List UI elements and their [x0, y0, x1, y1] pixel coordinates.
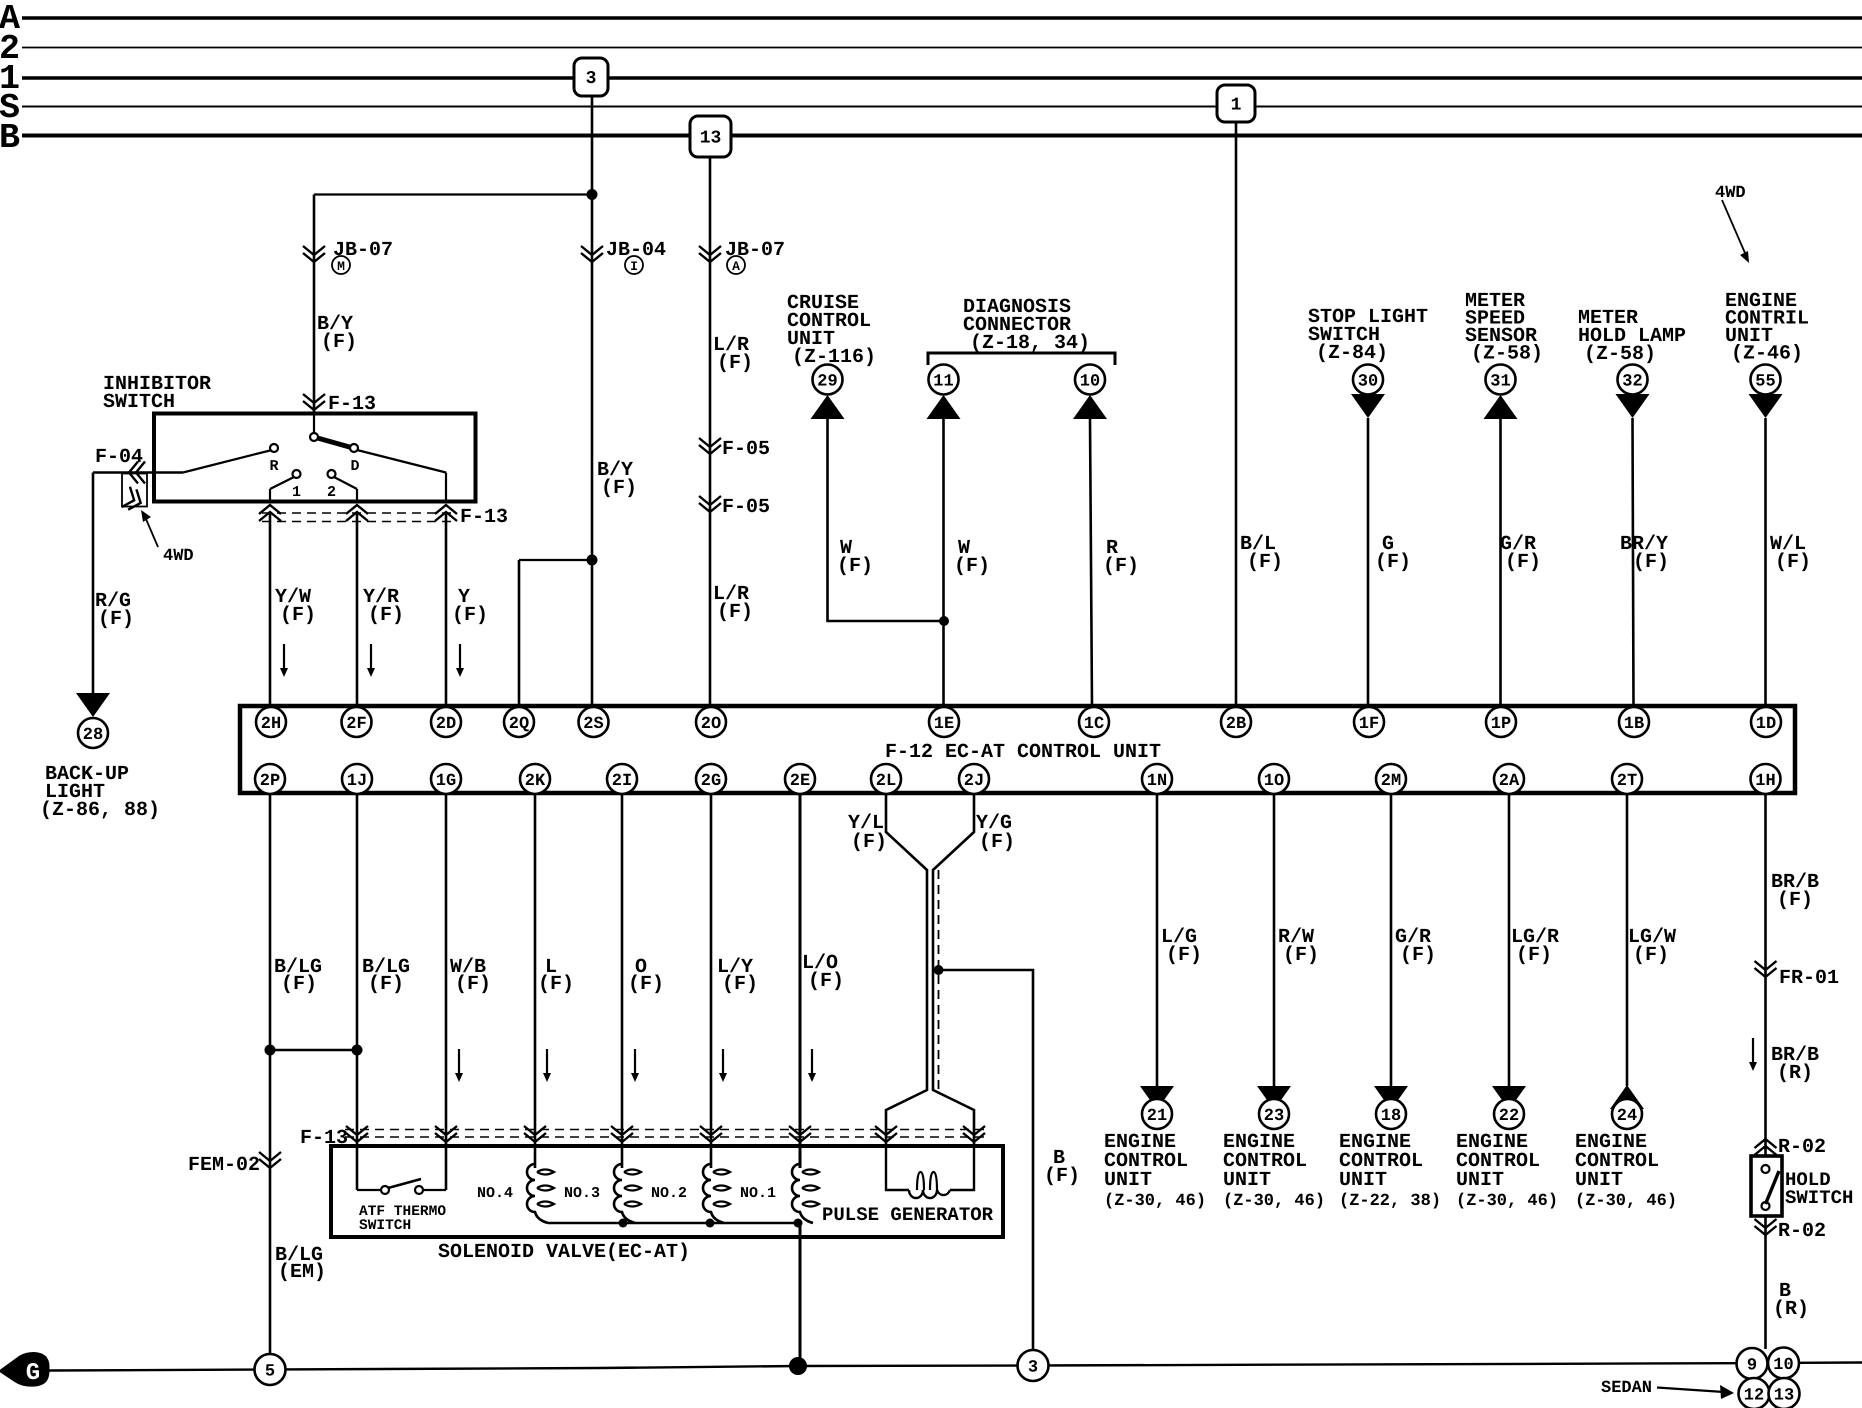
flow arrow x=460	[459, 644, 461, 668]
bus line A	[22, 16, 1862, 20]
svg-text:(F): (F)	[628, 973, 664, 996]
svg-text:(F): (F)	[1103, 555, 1139, 578]
svg-text:SWITCH: SWITCH	[359, 1218, 411, 1234]
circle 10	[1768, 1348, 1799, 1379]
svg-text:(F): (F)	[368, 604, 404, 627]
svg-text:UNIT: UNIT	[1456, 1169, 1504, 1192]
wire 2J shielded pair right	[933, 793, 974, 1146]
wire contact 1 to x=270 drop	[270, 477, 294, 489]
svg-text:1C: 1C	[1084, 715, 1104, 734]
circle 12	[1739, 1378, 1770, 1408]
wire circle 30 to pin 1F	[1367, 418, 1370, 706]
contact 1	[293, 470, 301, 478]
svg-text:4WD: 4WD	[163, 547, 194, 566]
svg-text:5: 5	[265, 1363, 275, 1382]
wire 18 from EC-AT pin	[1390, 793, 1393, 1086]
svg-text:FR-01: FR-01	[1779, 967, 1839, 990]
wire from cruise arrow down and right to junction	[828, 419, 945, 621]
circle 32 meter hold lamp	[1618, 365, 1648, 395]
svg-text:2D: 2D	[436, 715, 456, 734]
connector F-13 chevron x=446	[435, 505, 457, 521]
svg-text:(EM): (EM)	[278, 1261, 326, 1284]
svg-text:(Z-30, 46): (Z-30, 46)	[1104, 1192, 1206, 1211]
circle 22 engine control unit	[1494, 1099, 1524, 1129]
svg-text:1: 1	[1231, 96, 1242, 116]
circle 21 engine control unit	[1142, 1099, 1172, 1129]
svg-text:(F): (F)	[1633, 551, 1669, 574]
connector JB-07 (A) chevron	[699, 246, 721, 262]
wire pivot stub	[313, 414, 315, 435]
SEDAN pointer arrow	[1657, 1388, 1724, 1393]
bus line 1	[22, 76, 1862, 80]
circle 11 diagnosis	[929, 365, 959, 395]
connector FR-01 chevron	[1755, 961, 1777, 977]
svg-text:2G: 2G	[701, 772, 721, 791]
circle 9	[1737, 1348, 1768, 1379]
arrow from circle 55	[1749, 394, 1783, 418]
svg-text:1F: 1F	[1359, 715, 1379, 734]
svg-text:FEM-02: FEM-02	[188, 1154, 260, 1177]
connector F-13 chevron x=535	[524, 1126, 546, 1142]
svg-text:2: 2	[327, 484, 336, 501]
junction at (798,1223)	[794, 1219, 803, 1228]
inhibitor switch box	[154, 414, 476, 502]
svg-text:(F): (F)	[1400, 944, 1436, 967]
svg-text:28: 28	[83, 726, 103, 745]
4WD pointer arrow (left)	[146, 519, 158, 547]
pin 2O	[696, 707, 726, 737]
connector FEM-02 chevron	[259, 1152, 281, 1168]
wire horizontal y=194 to x=314	[314, 193, 592, 195]
svg-text:F-05: F-05	[722, 496, 770, 519]
svg-text:1: 1	[292, 484, 301, 501]
solenoid valve box	[331, 1146, 1003, 1237]
arrow to back-up light	[76, 693, 110, 717]
svg-text:R-02: R-02	[1778, 1136, 1826, 1159]
hold switch contact top	[1762, 1165, 1770, 1173]
flow arrow x=547	[546, 1049, 548, 1073]
svg-text:NO.4: NO.4	[477, 1185, 513, 1202]
connector F-13 chevron x=886	[875, 1126, 897, 1142]
pin 2K	[520, 764, 550, 794]
junction at (270,1050)	[265, 1045, 276, 1056]
flow arrow x=1753	[1752, 1038, 1754, 1062]
ATF thermo switch contact left	[381, 1186, 389, 1194]
big junction on ground bus	[789, 1357, 807, 1375]
arrow from circle 32	[1616, 394, 1650, 418]
wire Y/W x=270 to pin 2H	[269, 514, 272, 706]
svg-text:2Q: 2Q	[509, 715, 529, 734]
pin 1B	[1619, 707, 1649, 737]
connector F-13 chevron x=711	[700, 1126, 722, 1142]
svg-text:I: I	[630, 259, 638, 274]
pin 1F	[1354, 707, 1384, 737]
junction at (938.5,970)	[934, 965, 944, 975]
contact D	[350, 444, 358, 452]
wire 2P down to circle 5	[269, 793, 272, 1355]
svg-text:(Z-30, 46): (Z-30, 46)	[1575, 1192, 1677, 1211]
svg-text:1P: 1P	[1491, 715, 1511, 734]
flow arrow x=284	[283, 644, 285, 668]
svg-text:1N: 1N	[1147, 772, 1167, 791]
svg-text:(F): (F)	[98, 608, 134, 631]
svg-text:(F): (F)	[1166, 944, 1202, 967]
wire 2G down to solenoid NO.2	[710, 793, 713, 1168]
svg-text:(F): (F)	[808, 970, 844, 993]
svg-text:10: 10	[1773, 1356, 1793, 1375]
svg-text:F-13: F-13	[460, 506, 508, 529]
svg-text:2O: 2O	[701, 715, 721, 734]
wire 2I down to solenoid NO.3	[621, 793, 624, 1168]
svg-text:12: 12	[1744, 1387, 1764, 1406]
svg-text:(Z-30, 46): (Z-30, 46)	[1456, 1192, 1558, 1211]
svg-text:30: 30	[1358, 373, 1378, 392]
svg-text:32: 32	[1622, 373, 1642, 392]
wire 1G down to ATF thermo switch	[445, 793, 448, 1190]
svg-text:2K: 2K	[525, 772, 546, 791]
svg-text:B: B	[0, 118, 20, 158]
svg-text:1E: 1E	[934, 715, 954, 734]
wire R exit to F-04 corner	[93, 471, 183, 474]
4WD variant connector box	[122, 474, 147, 507]
svg-text:(F): (F)	[1633, 944, 1669, 967]
connector F-13 chevron x=800	[789, 1126, 811, 1142]
connector F-13 chevron above inhibitor switch	[303, 394, 325, 410]
connector JB-04 (I) chevron	[581, 246, 603, 262]
svg-text:1D: 1D	[1756, 715, 1776, 734]
svg-text:(Z-46): (Z-46)	[1731, 343, 1803, 366]
ATF thermo switch contact right	[415, 1186, 423, 1194]
connector F-13 chevron x=622	[611, 1126, 633, 1142]
pin 2H	[256, 707, 286, 737]
solenoid coil NO.3	[614, 1164, 635, 1223]
junction at (623,1223)	[619, 1219, 628, 1228]
flow arrow x=723	[722, 1049, 724, 1073]
circle 13	[1769, 1378, 1800, 1408]
svg-text:(F): (F)	[837, 555, 873, 578]
svg-text:2B: 2B	[1226, 715, 1246, 734]
pin 2P	[255, 764, 285, 794]
wire Y/R x=357 to pin 2F	[356, 514, 359, 706]
arrow to circle 22	[1492, 1086, 1526, 1110]
svg-text:(F): (F)	[601, 477, 637, 500]
hold switch contact bottom	[1762, 1202, 1770, 1210]
circle 18 engine control unit	[1376, 1099, 1406, 1129]
hold switch blade	[1766, 1171, 1780, 1204]
shield drain wire to ground	[939, 970, 1034, 1351]
junction at (944,621)	[939, 616, 949, 626]
svg-text:29: 29	[817, 373, 837, 392]
pulse generator symbol	[886, 1146, 909, 1190]
bus line 2	[22, 47, 1862, 49]
svg-text:R-02: R-02	[1778, 1220, 1826, 1243]
pin 1J	[342, 764, 372, 794]
wire solenoid return to ground bus	[799, 1223, 802, 1358]
wire circle 55 to pin 1D	[1764, 418, 1767, 706]
svg-text:R: R	[269, 458, 278, 475]
arrow into circle 31	[1484, 395, 1518, 419]
ground symbol G	[0, 1353, 49, 1386]
svg-text:(F): (F)	[717, 601, 753, 624]
wire contact 2 to x=357 drop	[334, 477, 357, 489]
svg-text:(F): (F)	[1044, 1165, 1080, 1188]
svg-text:23: 23	[1264, 1107, 1284, 1126]
svg-text:(F): (F)	[281, 973, 317, 996]
wire 21 from EC-AT pin	[1156, 793, 1159, 1086]
connector F-13 chevron x=357	[346, 505, 368, 521]
pin 2S	[579, 707, 609, 737]
svg-text:M: M	[337, 259, 345, 274]
svg-text:22: 22	[1499, 1107, 1519, 1126]
svg-text:1J: 1J	[347, 772, 367, 791]
connector R-02 chevron lower	[1755, 1219, 1777, 1235]
arrow to circle 18	[1374, 1086, 1408, 1110]
ATF thermo switch left lead	[357, 1189, 381, 1191]
ATF thermo switch blade	[388, 1179, 421, 1188]
svg-text:4WD: 4WD	[1715, 184, 1746, 203]
svg-text:(F): (F)	[321, 331, 357, 354]
svg-text:2T: 2T	[1617, 772, 1637, 791]
svg-text:SWITCH: SWITCH	[1785, 1187, 1853, 1209]
pin 1C	[1079, 707, 1109, 737]
svg-text:1B: 1B	[1624, 715, 1644, 734]
svg-text:F-04: F-04	[95, 446, 143, 469]
pin 2L	[871, 764, 901, 794]
svg-text:UNIT: UNIT	[1339, 1169, 1387, 1192]
svg-text:(F): (F)	[452, 604, 488, 627]
arrow into circle 11	[927, 395, 961, 419]
shield drain dashed wire	[938, 870, 940, 1090]
svg-text:2J: 2J	[964, 772, 984, 791]
junction at (592,194)	[587, 189, 598, 200]
pin 1H	[1751, 764, 1781, 794]
circle 24 engine control unit	[1612, 1099, 1642, 1129]
wire from box 3 down to pin 2S	[591, 96, 594, 706]
ground bus line	[49, 1363, 1737, 1370]
arrow from circle 24	[1610, 1085, 1644, 1109]
svg-text:11: 11	[933, 373, 953, 392]
svg-text:2F: 2F	[346, 715, 366, 734]
connector F-13 chevron x=357	[346, 1126, 368, 1142]
svg-text:(Z-22, 38): (Z-22, 38)	[1339, 1192, 1441, 1211]
svg-text:PULSE GENERATOR: PULSE GENERATOR	[822, 1204, 994, 1226]
svg-text:UNIT: UNIT	[1223, 1169, 1271, 1192]
svg-text:2P: 2P	[260, 772, 280, 791]
wire from box 1 down to pin 2B	[1235, 122, 1238, 706]
circle 30 stop light switch	[1353, 365, 1383, 395]
svg-text:(Z-30, 46): (Z-30, 46)	[1223, 1192, 1325, 1211]
flow arrow x=812	[811, 1049, 813, 1073]
svg-text:2S: 2S	[583, 715, 603, 734]
pin 2M	[1376, 764, 1406, 794]
pin 2D	[431, 707, 461, 737]
connector box 3 on bus 1	[574, 58, 608, 96]
svg-text:2I: 2I	[612, 772, 632, 791]
svg-text:(F): (F)	[455, 973, 491, 996]
svg-text:(F): (F)	[1283, 944, 1319, 967]
wire from box 13 down to pin 2O	[709, 157, 712, 706]
arrow from circle 30	[1351, 394, 1385, 418]
wire Y x=446 to pin 2D	[445, 514, 448, 706]
connector JB-07 (M) chevron	[303, 246, 325, 262]
pin 1P	[1486, 707, 1516, 737]
wire 23 from EC-AT pin	[1273, 793, 1276, 1086]
solenoid common return wire	[548, 1222, 800, 1224]
svg-text:(Z-58): (Z-58)	[1584, 343, 1656, 366]
4WD variant connector chevrons	[122, 487, 145, 513]
svg-text:UNIT: UNIT	[1104, 1169, 1152, 1192]
circle 55 engine control unit	[1751, 365, 1781, 395]
svg-text:A: A	[732, 259, 740, 274]
wire 2K down to solenoid NO.4	[534, 793, 537, 1168]
pin 1G	[431, 764, 461, 794]
arrow to circle 23	[1257, 1086, 1291, 1110]
arrow into circle 10	[1073, 395, 1107, 419]
solenoid coil NO.4	[527, 1164, 548, 1223]
svg-text:2H: 2H	[261, 715, 281, 734]
connector F-13 chevron x=270	[259, 505, 281, 521]
svg-text:3: 3	[1028, 1359, 1038, 1378]
svg-text:SEDAN: SEDAN	[1601, 1379, 1652, 1398]
connector F-13 chevron x=446	[435, 1126, 457, 1142]
bus line S	[22, 106, 1862, 108]
pin 2A	[1494, 764, 1524, 794]
svg-text:(F): (F)	[280, 604, 316, 627]
svg-text:2E: 2E	[790, 772, 810, 791]
svg-text:31: 31	[1490, 373, 1510, 392]
wire horizontal y=560 to 2Q	[519, 559, 592, 561]
svg-text:(Z-84): (Z-84)	[1316, 342, 1388, 365]
wire 24 from EC-AT pin	[1626, 793, 1629, 1086]
svg-text:NO.1: NO.1	[740, 1185, 776, 1202]
pin 1O	[1259, 764, 1289, 794]
svg-text:UNIT: UNIT	[1575, 1169, 1623, 1192]
circle 3 on ground bus	[1018, 1350, 1049, 1381]
svg-text:NO.2: NO.2	[651, 1185, 687, 1202]
arrow to circle 21	[1140, 1086, 1174, 1110]
flow arrow x=371	[370, 644, 372, 668]
junction at (357,1050)	[352, 1045, 363, 1056]
wire 2E down through solenoid NO.1 to ground bus	[799, 793, 802, 1168]
wire circle 32 to pin 1B	[1633, 418, 1634, 706]
pin 1E	[929, 707, 959, 737]
pin 2B	[1221, 707, 1251, 737]
svg-text:(F): (F)	[1777, 889, 1813, 912]
wire 22 from EC-AT pin	[1508, 793, 1511, 1086]
svg-text:24: 24	[1617, 1107, 1637, 1126]
contact R	[270, 444, 278, 452]
svg-text:NO.3: NO.3	[564, 1185, 600, 1202]
connector F-13 chevron x=974	[963, 1126, 985, 1142]
pin 2F	[342, 707, 372, 737]
arrow into circle 29	[811, 395, 845, 419]
junction at (592,560)	[587, 555, 598, 566]
svg-text:13: 13	[1774, 1387, 1794, 1406]
F-13 dashed connector lines	[262, 512, 455, 514]
svg-text:(R): (R)	[1777, 1062, 1813, 1085]
junction at (710,1223)	[706, 1219, 715, 1228]
circle 28 back-up light	[78, 718, 108, 748]
pin 1N	[1142, 764, 1172, 794]
svg-text:(F): (F)	[722, 973, 758, 996]
svg-text:G: G	[26, 1360, 40, 1387]
diagnosis bracket	[928, 353, 1115, 365]
pin 2G	[696, 764, 726, 794]
svg-text:1G: 1G	[436, 772, 456, 791]
wire contact D to x=446 drop	[357, 450, 446, 473]
svg-text:(F): (F)	[851, 831, 887, 854]
pin 2Q	[504, 707, 534, 737]
solenoid coil NO.1	[792, 1164, 813, 1223]
wire R/G down to back-up light	[92, 473, 95, 694]
svg-text:SOLENOID VALVE(EC-AT): SOLENOID VALVE(EC-AT)	[438, 1241, 690, 1264]
wire 1J down to ATF thermo switch	[356, 793, 359, 1190]
wire 2L shielded pair left	[886, 793, 927, 1146]
svg-text:13: 13	[700, 129, 722, 149]
svg-text:21: 21	[1147, 1107, 1167, 1126]
connector box 1 on bus S	[1217, 85, 1255, 122]
wire circle 31 to pin 1P	[1499, 419, 1502, 706]
circle 5 on ground bus	[255, 1354, 286, 1385]
svg-text:F-12 EC-AT CONTROL UNIT: F-12 EC-AT CONTROL UNIT	[885, 741, 1161, 764]
connector box 13 on bus B	[690, 116, 731, 157]
svg-text:(F): (F)	[368, 973, 404, 996]
svg-text:D: D	[350, 458, 359, 475]
circle 29 cruise control	[813, 365, 843, 395]
svg-text:(F): (F)	[1516, 944, 1552, 967]
contact pivot	[310, 433, 318, 441]
connector R-02 chevron upper	[1755, 1139, 1777, 1155]
circle 10 diagnosis	[1075, 365, 1105, 395]
EC-AT control unit box F-12	[240, 706, 1795, 793]
svg-text:SWITCH: SWITCH	[103, 391, 175, 414]
wire x=314 down to inhibitor switch	[313, 195, 316, 414]
hold switch box	[1751, 1156, 1782, 1216]
pin 2T	[1612, 764, 1642, 794]
connector F-05 chevron upper	[699, 438, 721, 454]
pin 1D	[1751, 707, 1781, 737]
pin 2I	[607, 764, 637, 794]
svg-text:(Z-86, 88): (Z-86, 88)	[40, 799, 160, 822]
svg-text:(F): (F)	[1775, 551, 1811, 574]
svg-text:2A: 2A	[1499, 772, 1520, 791]
wire circle 11 to pin 1E	[942, 419, 945, 706]
svg-text:(Z-58): (Z-58)	[1471, 343, 1543, 366]
svg-text:(F): (F)	[1247, 551, 1283, 574]
svg-text:(F): (F)	[954, 555, 990, 578]
wire circle 10 to pin 1C	[1090, 419, 1092, 706]
ATF thermo switch right lead	[423, 1189, 446, 1191]
svg-text:10: 10	[1080, 373, 1100, 392]
svg-text:3: 3	[586, 69, 597, 89]
circle 31 meter speed sensor	[1486, 365, 1516, 395]
connector F-04 chevrons	[129, 462, 145, 484]
4WD pointer arrow (right)	[1722, 200, 1745, 253]
switch blade pivot-D (closed)	[314, 437, 353, 448]
svg-text:(F): (F)	[979, 831, 1015, 854]
bus line B	[22, 134, 1862, 138]
circle 23 engine control unit	[1259, 1099, 1289, 1129]
pin 2E	[785, 764, 815, 794]
pin 2J	[959, 764, 989, 794]
solenoid coil NO.2	[703, 1164, 724, 1223]
svg-text:F-05: F-05	[722, 438, 770, 461]
flow arrow x=635	[634, 1049, 636, 1073]
svg-text:18: 18	[1381, 1107, 1401, 1126]
wire contact R to left exit	[183, 450, 272, 473]
svg-text:2M: 2M	[1381, 772, 1401, 791]
flow arrow x=459	[458, 1049, 460, 1073]
